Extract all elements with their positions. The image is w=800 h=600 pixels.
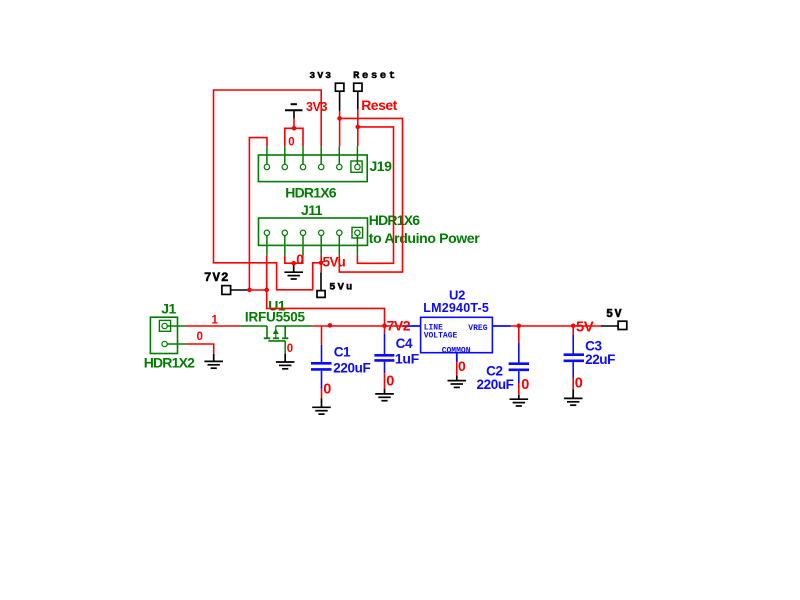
svg-text:0: 0	[288, 136, 294, 148]
junction at C2	[517, 324, 522, 329]
junction at 7V2 label	[382, 323, 387, 328]
junction at C3 5V	[571, 324, 576, 329]
connector J11 pin 6 circle	[355, 230, 360, 235]
svg-text:to Arduino Power: to Arduino Power	[369, 230, 480, 246]
svg-text:5V: 5V	[576, 318, 594, 335]
connector J11 pin 3 lead	[302, 236, 304, 256]
port 5V black lead	[601, 325, 618, 327]
capacitor C1 bottom lead	[321, 371, 323, 389]
svg-text:IRFU5505: IRFU5505	[245, 309, 306, 324]
svg-text:7V2: 7V2	[204, 271, 230, 285]
connector J11 pin 6 lead	[356, 236, 358, 256]
regulator U2 output pin lead	[492, 325, 510, 327]
connector J19 box	[258, 155, 367, 182]
connector J1 pin 2 lead	[167, 343, 186, 345]
transistor U1 drain contact bar	[282, 337, 288, 339]
wire net 7V2 left branch	[249, 138, 267, 290]
transistor U1 substrate contact bar	[273, 337, 279, 339]
ground at C4	[384, 389, 386, 394]
wire 5Vu junction down to port	[320, 263, 322, 273]
svg-text:0: 0	[458, 358, 466, 374]
port 5Vu square	[317, 291, 325, 298]
svg-text:J19: J19	[370, 158, 393, 174]
port 5V square	[618, 321, 627, 329]
svg-text:5Vu: 5Vu	[323, 254, 346, 269]
power symbol 3V3 long bar	[285, 109, 303, 111]
junction at J11 pin1 vertical	[264, 288, 269, 293]
junction at Reset port branch	[356, 125, 361, 130]
connector J19 pin 4 lead	[320, 146, 322, 164]
wire J11 pin1 down to U1 drain net	[267, 256, 385, 326]
op-amp U2 regulator box	[421, 317, 493, 352]
svg-text:0: 0	[575, 376, 583, 392]
connector J19 pin 4 circle	[319, 164, 324, 169]
connector J19 pin 1 circle	[264, 164, 269, 169]
capacitor C4 bottom lead	[384, 362, 386, 374]
capacitor C4 plates	[374, 354, 394, 357]
junction at power symbol	[292, 126, 297, 131]
svg-text:C1: C1	[334, 345, 351, 360]
svg-text:1: 1	[212, 314, 219, 326]
junction at 5Vu	[319, 261, 324, 266]
transistor U1 source leg	[266, 326, 268, 338]
capacitor C2 top lead	[518, 326, 520, 343]
wire J1 pin2 to ground	[186, 344, 214, 354]
svg-text:COMMON: COMMON	[442, 346, 471, 355]
power symbol 3V3 stub	[293, 110, 295, 119]
junction on rail near C1	[328, 323, 333, 328]
svg-text:5V: 5V	[606, 308, 623, 321]
connector J19 pin 1 lead	[266, 146, 268, 164]
connector J19 pin 5 circle	[337, 164, 342, 169]
transistor U1 gate lead	[284, 341, 286, 354]
wire net 3V3 loop to J11 pin5	[339, 118, 402, 272]
wire net 5Vu top loop	[214, 90, 322, 290]
connector J19 pin 5 lead	[338, 146, 340, 164]
regulator U2 common pin lead	[456, 353, 458, 362]
wire J1 pin1 to U1 source net 1	[186, 325, 240, 327]
connector J11 pin 5 lead	[338, 236, 340, 256]
wire net Reset loop to J11 pin6	[357, 127, 393, 263]
connector J11 pin 2 circle	[282, 230, 287, 235]
svg-text:HDR1X6: HDR1X6	[285, 184, 336, 200]
connector J19 pin1 square	[351, 161, 362, 172]
wire J11 pin4 to 5Vu junction	[320, 256, 322, 263]
svg-text:J11: J11	[301, 202, 323, 218]
svg-text:LM2940T-5: LM2940T-5	[423, 301, 489, 315]
wire net Reset from port to J19 pin6	[357, 109, 359, 146]
connector J11 pin 4 circle	[319, 230, 324, 235]
port Reset square	[354, 83, 362, 91]
svg-text:Reset: Reset	[361, 97, 397, 113]
connector J11 pin 3 circle	[300, 230, 305, 235]
svg-text:Reset: Reset	[353, 70, 398, 82]
connector J19 pin 2 lead	[284, 146, 286, 164]
power symbol 3V3 short bar	[291, 103, 297, 105]
transistor U1 drain leg	[284, 326, 286, 338]
transistor U1 drain lead	[276, 325, 313, 327]
port 7V2 square	[222, 286, 231, 295]
connector J11 box	[259, 218, 368, 245]
svg-text:3V3: 3V3	[309, 70, 333, 81]
wire J11 pins 2 and 3 to ground	[285, 256, 303, 264]
connector J11 pin 4 lead	[320, 236, 322, 256]
port Reset black lead	[357, 91, 359, 109]
connector J19 pin 6 circle	[355, 164, 360, 169]
connector J1 pin 1 circle	[162, 323, 167, 328]
svg-text:220uF: 220uF	[333, 360, 370, 375]
wire main 7V2 rail	[312, 325, 405, 327]
ground at U2 common	[456, 362, 458, 376]
capacitor C2 plates	[509, 362, 529, 365]
wire power symbol to J19 pins 2 and 3	[285, 128, 303, 146]
svg-text:220uF: 220uF	[477, 377, 514, 392]
connector J11 pin 2 lead	[284, 236, 286, 256]
junction at 3V3 port branch	[337, 116, 342, 121]
connector J1 box	[150, 317, 177, 353]
connector J19 pin 3 lead	[302, 146, 304, 164]
ground at C3	[572, 389, 574, 398]
svg-text:22uF: 22uF	[585, 352, 615, 367]
transistor U1 gate bar	[268, 340, 285, 342]
ground at J1	[213, 354, 215, 362]
svg-text:C4: C4	[396, 336, 413, 351]
svg-text:0: 0	[386, 374, 394, 390]
connector J11 pin1 square	[352, 227, 363, 238]
port 3V3 black lead	[339, 91, 341, 111]
port 3V3 square	[335, 83, 344, 91]
svg-text:7V2: 7V2	[387, 317, 411, 333]
svg-text:VOLTAGE: VOLTAGE	[424, 331, 458, 340]
transistor U1 source lead	[240, 325, 267, 327]
connector J19 pin 3 circle	[300, 164, 305, 169]
ground at C1	[321, 399, 323, 408]
transistor U1 source contact bar	[264, 337, 270, 339]
svg-text:5Vu: 5Vu	[329, 282, 354, 294]
svg-text:1uF: 1uF	[395, 350, 420, 366]
capacitor C3 bottom lead	[572, 362, 574, 377]
connector J1 pin1 square	[159, 320, 170, 331]
regulator U2 input pin lead	[403, 325, 421, 327]
capacitor C2 bottom lead	[518, 371, 520, 383]
svg-text:0: 0	[521, 377, 529, 393]
connector J11 pin 1 circle	[264, 230, 269, 235]
connector J19 pin 2 circle	[282, 164, 287, 169]
ground at C2	[518, 395, 520, 399]
capacitor C3 plates	[564, 353, 584, 356]
capacitor C1 top lead	[321, 326, 323, 345]
connector J1 pin 2 circle	[162, 341, 167, 346]
svg-text:0: 0	[296, 252, 304, 267]
wire net 3V3 from port to J19 pin5	[339, 111, 341, 146]
ground at U1 gate	[284, 354, 286, 362]
capacitor C4 top lead	[384, 326, 386, 334]
svg-text:HDR1X2: HDR1X2	[144, 355, 195, 371]
svg-text:U2: U2	[449, 287, 465, 302]
connector J11 pin 1 lead	[266, 236, 268, 256]
connector J19 pin 6 lead	[356, 146, 358, 164]
port 7V2 black lead	[231, 289, 248, 291]
wire 7V2 port to junctions	[247, 289, 266, 291]
svg-text:0: 0	[287, 343, 293, 355]
junction at 7V2 port	[247, 288, 252, 293]
svg-text:VREG: VREG	[468, 324, 487, 333]
junction at J11 ground	[291, 261, 296, 266]
capacitor C1 plates	[311, 362, 332, 365]
transistor U1 substrate leg with arrow	[275, 326, 277, 338]
connector J11 pin 5 circle	[337, 230, 342, 235]
port 5Vu black lead	[320, 272, 322, 290]
svg-text:0: 0	[323, 381, 331, 397]
svg-text:HDR1X6: HDR1X6	[369, 212, 420, 228]
ground at J11	[293, 263, 295, 272]
connector J1 pin 1 lead	[167, 325, 186, 327]
svg-text:0: 0	[197, 331, 203, 343]
wire 5V rail	[511, 325, 602, 327]
capacitor C3 top lead	[572, 326, 574, 335]
svg-text:J1: J1	[161, 300, 176, 316]
svg-text:3V3: 3V3	[306, 100, 327, 114]
